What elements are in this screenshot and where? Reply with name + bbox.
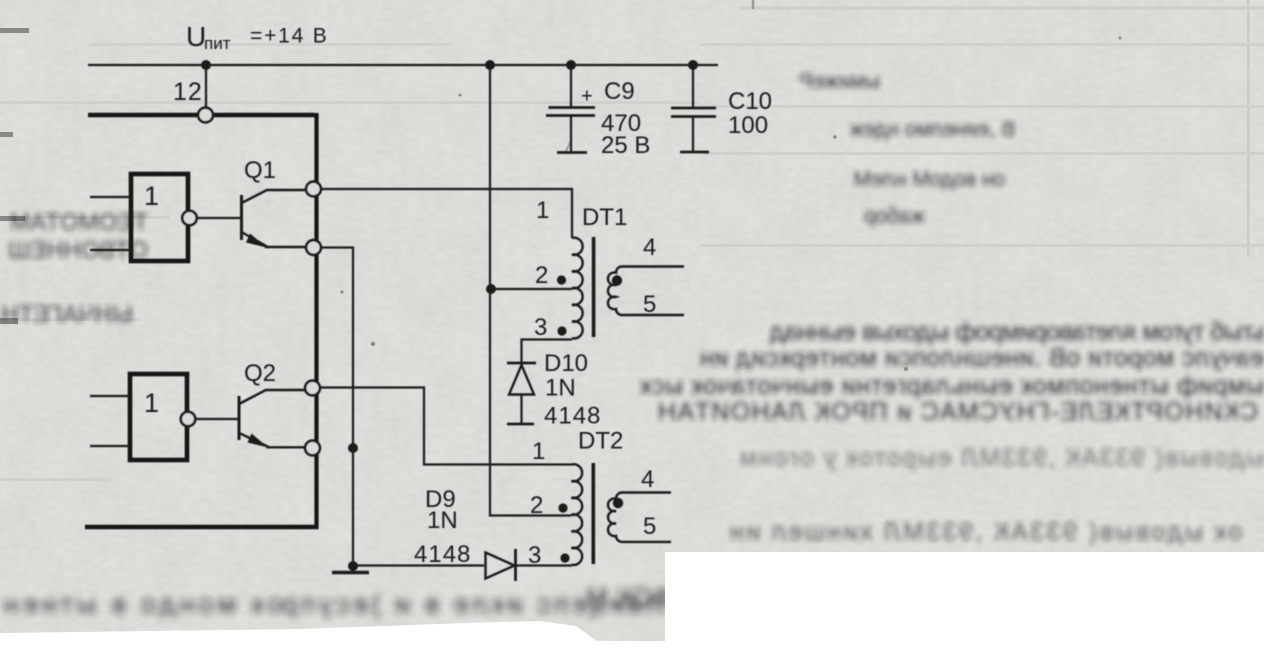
svg-text:ымижеР: ымижеР	[799, 70, 880, 93]
svg-text:4: 4	[641, 466, 654, 493]
svg-text:ымриф ытненопмок еыньларгетни: ымриф ытненопмок еыньларгетни еынчотачок…	[639, 372, 1264, 400]
svg-text:D10: D10	[544, 350, 588, 377]
svg-text:СКИНОРТКЕЛЕ-ГНУСМАС и ПРОК ЛАН: СКИНОРТКЕЛЕ-ГНУСМАС и ПРОК ЛАНОИТАН	[658, 398, 1258, 426]
svg-text:2: 2	[535, 262, 548, 289]
svg-text:он водоМ нлеМ: он водоМ нлеМ	[853, 168, 1005, 191]
svg-text:5: 5	[643, 291, 656, 318]
svg-text:1: 1	[144, 181, 159, 211]
svg-text:ФОК М: ФОК М	[586, 582, 672, 612]
svg-text:+: +	[581, 86, 593, 108]
svg-text:3: 3	[534, 314, 547, 341]
svg-text:ок мондо в ытнен: ок мондо в ытнен	[4, 589, 282, 619]
svg-text:еачулс мороти оВ .инешнлопси м: еачулс мороти оВ .инешнлопси монтерксид …	[700, 344, 1264, 372]
svg-text:100: 100	[728, 112, 768, 139]
svg-text:DT1: DT1	[582, 204, 627, 231]
svg-text:ТЕОМОТАМ: ТЕОМОТАМ	[10, 209, 148, 236]
svg-text:1: 1	[532, 438, 545, 465]
svg-text:жабор: жабор	[864, 205, 925, 228]
svg-text:4: 4	[643, 234, 656, 261]
svg-text:Q1: Q1	[244, 157, 276, 184]
svg-text:ыдовыв( 933АК ,933МЛ еыроток у: ыдовыв( 933АК ,933МЛ еыроток у огонм	[740, 444, 1264, 472]
svg-text:C9: C9	[604, 78, 635, 105]
svg-text:2: 2	[530, 492, 543, 519]
svg-text:Q2: Q2	[244, 360, 276, 387]
svg-text:1: 1	[536, 197, 549, 224]
svg-text:=+14 В: =+14 В	[250, 25, 329, 48]
svg-text:DT2: DT2	[578, 428, 623, 455]
svg-text:1N: 1N	[427, 507, 458, 534]
svg-text:4148: 4148	[414, 541, 471, 568]
svg-text:В ,еинелмо ндеж: В ,еинелмо ндеж	[850, 118, 1015, 141]
svg-text:3: 3	[528, 542, 541, 569]
svg-text:4148: 4148	[544, 403, 601, 430]
svg-text:ьтыб тугом ялетаворимроф ыдохы: ьтыб тугом ялетаворимроф ыдохыв еыннад	[770, 318, 1264, 346]
svg-text:5: 5	[643, 513, 656, 540]
svg-text:пит: пит	[204, 34, 231, 53]
svg-text:12: 12	[173, 78, 203, 106]
svg-text:1N: 1N	[545, 375, 576, 402]
svg-text:1: 1	[144, 388, 159, 418]
svg-text:ЫНЧАГЕТН: ЫНЧАГЕТН	[1, 301, 133, 328]
svg-text:ок ыдовыв( 933АК ,933МЛ хиншел: ок ыдовыв( 933АК ,933МЛ хиншел ин	[730, 518, 1242, 546]
svg-text:C10: C10	[728, 88, 772, 115]
svg-text:25 В: 25 В	[601, 132, 650, 159]
